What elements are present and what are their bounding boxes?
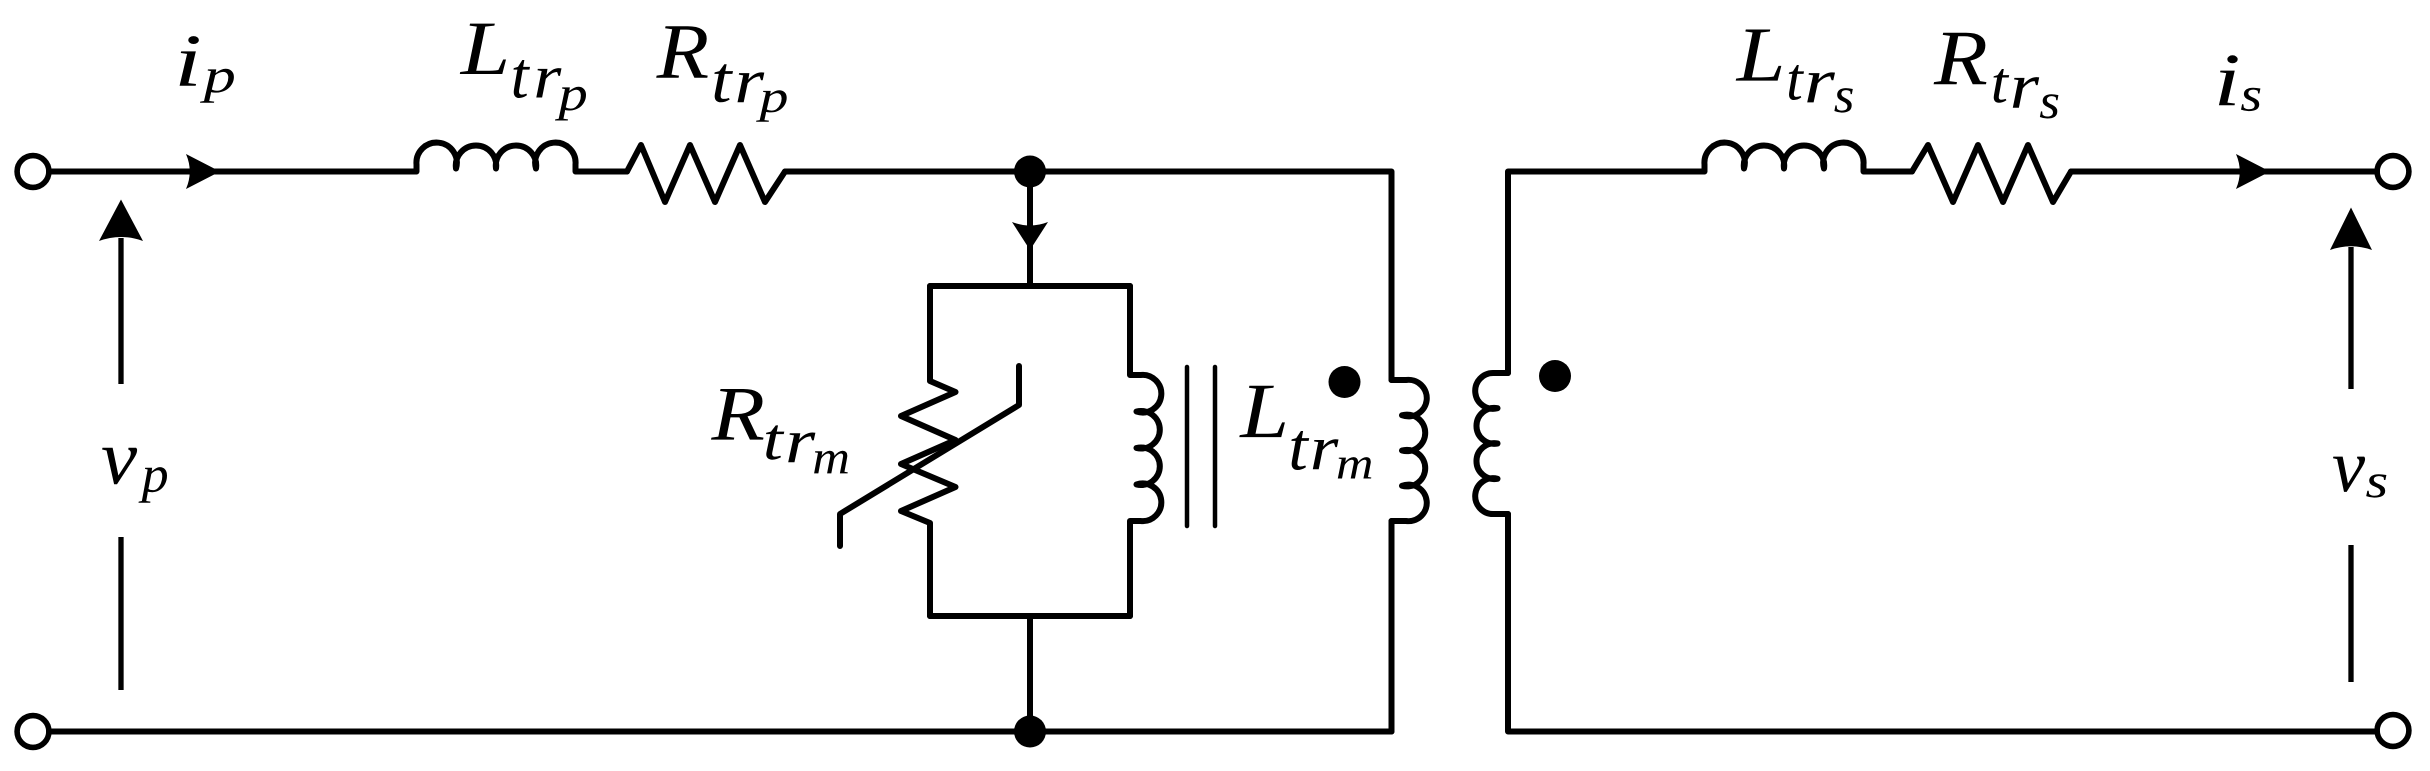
label i_s xyxy=(2219,55,2261,111)
inductor L_tr_s xyxy=(1704,143,1863,172)
resistor R_tr_s xyxy=(1912,145,2071,202)
voltage arrow v_p shaft xyxy=(118,238,123,384)
current arrow i_p head xyxy=(186,154,220,189)
terminal (bottom-right) xyxy=(2377,715,2409,747)
label L_tr_m xyxy=(1239,386,1371,479)
wire secondary bottom xyxy=(1508,514,2377,732)
wire box top xyxy=(930,283,1130,289)
voltage arrow v_s shaft xyxy=(2348,247,2353,389)
polarity dot (secondary) xyxy=(1539,360,1571,392)
wire xyxy=(576,169,627,175)
wire shunt branch xyxy=(1027,172,1033,287)
voltage arrow v_s lower segment xyxy=(2348,545,2353,682)
polarity dot (primary) xyxy=(1329,366,1361,398)
label L_tr_s xyxy=(1736,29,1853,112)
variable resistor arrow xyxy=(840,366,1019,546)
wire bottom rail xyxy=(49,729,1392,735)
wire branch to bottom rail xyxy=(1027,616,1033,732)
wire xyxy=(1864,169,1912,175)
core lines xyxy=(1187,367,1215,526)
node junction dot (bottom) xyxy=(1014,716,1046,748)
node junction dot (top) xyxy=(1014,156,1046,188)
label i_p xyxy=(180,36,234,103)
inductor L_tr_p xyxy=(416,143,575,172)
terminal (bottom-left) xyxy=(17,716,49,748)
terminal (top-right) xyxy=(2377,156,2409,188)
voltage arrow v_s head xyxy=(2330,208,2372,251)
wire to top-right terminal xyxy=(2071,169,2377,175)
transformer primary winding xyxy=(1392,380,1427,521)
current arrow i_s head xyxy=(2236,154,2270,189)
transformer secondary winding xyxy=(1475,373,1508,514)
label L_tr_p xyxy=(460,24,586,121)
label v_s xyxy=(2333,457,2386,498)
label R_tr_m xyxy=(711,389,848,473)
label R_tr_s xyxy=(1934,33,2059,119)
inductor L_tr_m xyxy=(1130,286,1161,616)
variable resistor R_tr_m xyxy=(901,286,956,616)
wire primary bottom xyxy=(1389,521,1395,732)
shunt branch arrow head xyxy=(1012,222,1048,250)
wire secondary top xyxy=(1508,172,1704,374)
terminal (top-left) xyxy=(17,156,49,188)
wire top-left xyxy=(49,169,416,175)
resistor R_tr_p xyxy=(627,145,785,202)
voltage arrow v_p head xyxy=(99,200,143,242)
voltage arrow v_p lower segment xyxy=(118,537,123,690)
wire box bottom xyxy=(930,613,1130,619)
wire to transformer primary xyxy=(785,172,1392,381)
label v_p xyxy=(102,448,167,503)
label R_tr_p xyxy=(656,26,786,122)
